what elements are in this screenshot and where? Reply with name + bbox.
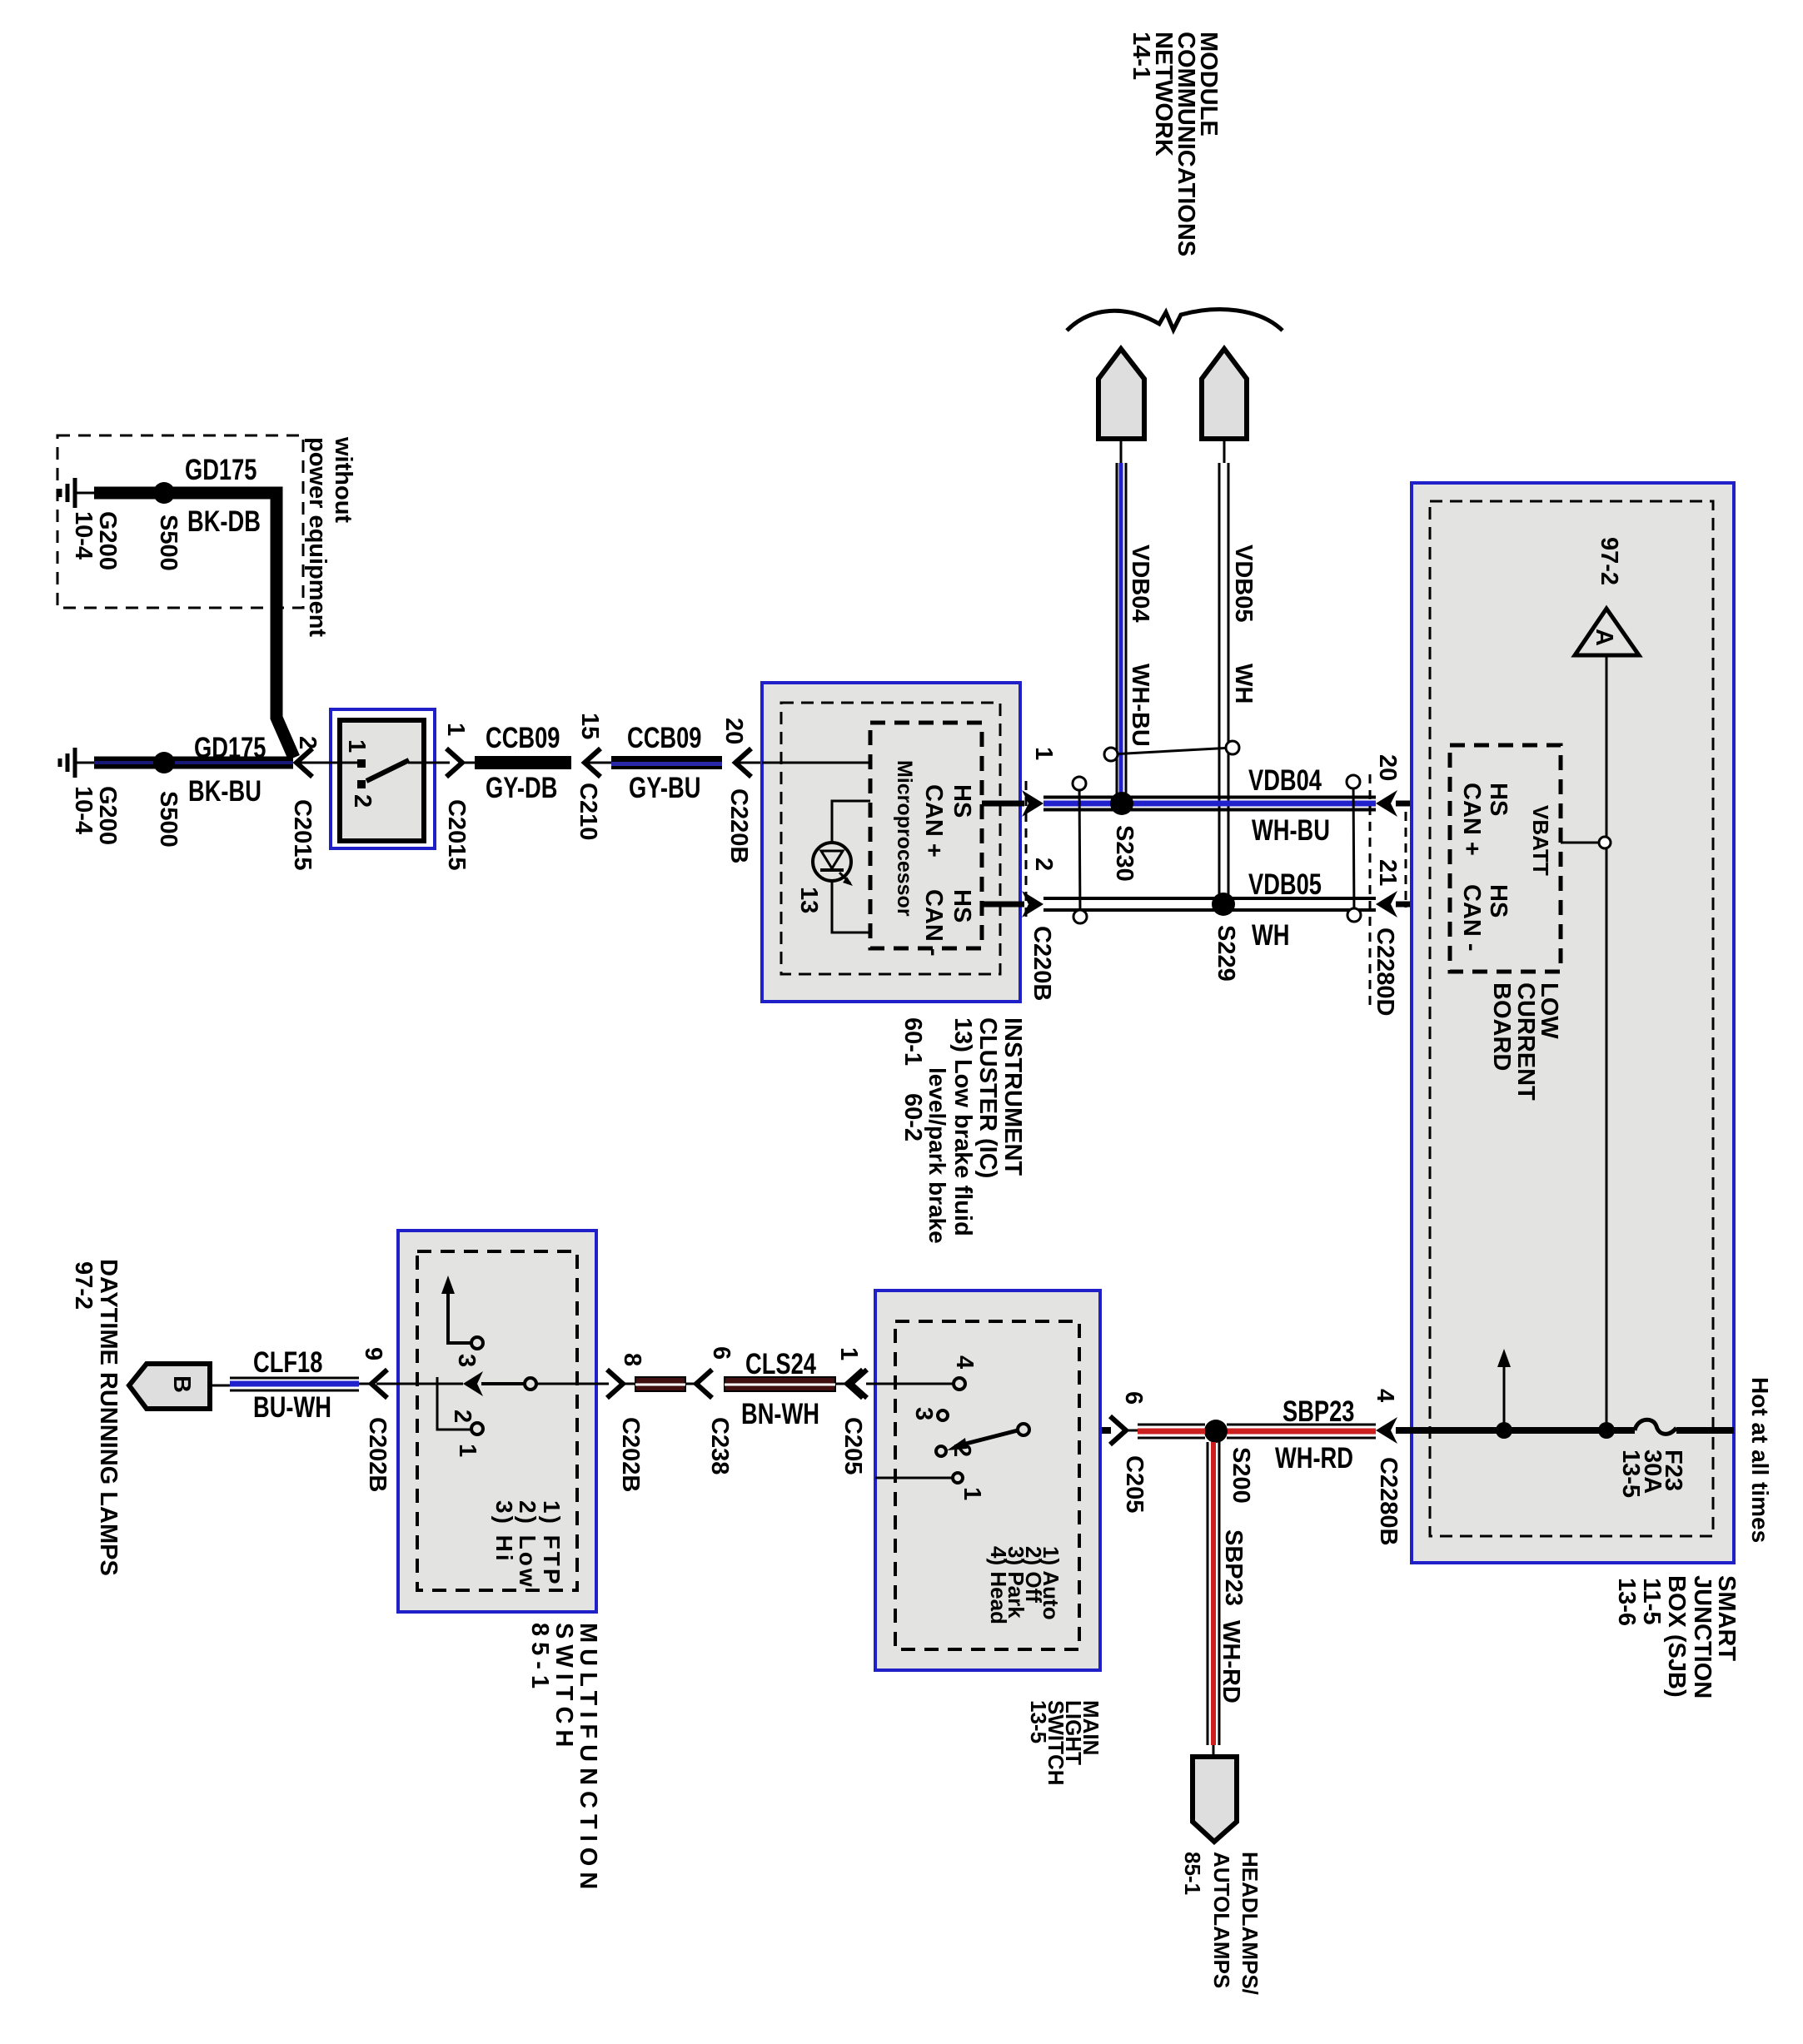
switch arm <box>956 1430 1018 1446</box>
dashed option box <box>57 435 303 608</box>
svg-text:G200: G200 <box>94 786 121 845</box>
label BN-WH <box>741 1398 819 1430</box>
label SMART JUNCTION BOX SJB <box>1713 1575 1740 1661</box>
offpage connector HEADLAMPS pentagon <box>1193 1757 1237 1842</box>
svg-text:20: 20 <box>720 718 747 744</box>
wire C220B-20 inside IC <box>762 762 870 764</box>
connector arrow C220B female <box>735 748 751 777</box>
wire into parking brake switch <box>296 762 360 764</box>
svg-text:10-4: 10-4 <box>70 786 97 834</box>
wire main light switch out <box>1027 1427 1111 1434</box>
svg-text:8: 8 <box>619 1353 645 1366</box>
bus connector pentagon VDB04 <box>1098 349 1144 439</box>
svg-text:A: A <box>1591 629 1617 646</box>
pin 8 label <box>619 1353 645 1366</box>
svg-text:CLUSTER (IC): CLUSTER (IC) <box>974 1017 1001 1178</box>
wire into SJB pin20 <box>1396 801 1451 807</box>
splice S500 top <box>153 482 175 504</box>
wire to pin 1 <box>408 762 450 764</box>
svg-text:CAN +: CAN + <box>920 784 947 858</box>
pin 2 label <box>1030 858 1057 871</box>
svg-text:VDB05: VDB05 <box>1248 868 1322 901</box>
connector dashed line C220B <box>1025 781 1028 919</box>
label SBP23 down <box>1220 1529 1247 1606</box>
twisted pair marker left <box>1079 783 1080 917</box>
contact 3 <box>938 1410 948 1420</box>
wire into SJB pin21 <box>1396 902 1451 908</box>
svg-text:GY-BU: GY-BU <box>629 772 700 804</box>
connector arrow C238 female <box>696 1370 712 1398</box>
connector arrow C220B pin2 solid <box>1022 891 1043 918</box>
wire CLF18 BU-WH <box>230 1377 359 1380</box>
ground G200 bottom <box>60 748 75 778</box>
svg-text:10-4: 10-4 <box>70 511 97 559</box>
svg-text:C2015: C2015 <box>289 799 316 870</box>
svg-text:VDB05: VDB05 <box>1230 545 1257 623</box>
pin 15 label C210 <box>576 713 603 739</box>
label GD175 bottom <box>194 732 266 764</box>
switch contact 2 <box>357 780 366 788</box>
bus brace <box>1067 310 1283 331</box>
wire ground stub bottom <box>75 762 94 764</box>
svg-text:Hot at all times: Hot at all times <box>1747 1377 1773 1543</box>
label WH-BU bus <box>1252 814 1330 847</box>
pin 20 label <box>1374 754 1401 781</box>
label GY-DB <box>486 772 557 804</box>
wire SBP23 WH-RD left <box>1138 1424 1205 1426</box>
label S229 <box>1213 925 1239 982</box>
pin 9 label <box>360 1347 386 1360</box>
connector arrow C2280D pin20 solid <box>1376 790 1397 817</box>
switch arm <box>366 760 409 781</box>
connector arrow C2015 female <box>296 748 312 777</box>
svg-text:SWITCH: SWITCH <box>550 1623 577 1753</box>
svg-text:21: 21 <box>1374 859 1401 886</box>
wire CLS24 BN-WH bar <box>725 1377 835 1391</box>
connector arrow C210 <box>585 748 600 777</box>
label Hot at all times <box>1747 1377 1773 1543</box>
svg-text:1) FTP: 1) FTP <box>539 1500 565 1587</box>
svg-text:WH: WH <box>1252 919 1289 952</box>
contact 1 <box>953 1473 963 1483</box>
svg-text:S230: S230 <box>1111 825 1138 882</box>
connector arrow C2015 male <box>446 748 462 777</box>
label VDB05 bus <box>1248 868 1322 901</box>
feed bus <box>1396 1427 1635 1434</box>
arrow other circuits <box>1503 1365 1506 1430</box>
contact 4 <box>954 1378 965 1390</box>
label C210 <box>575 783 601 840</box>
svg-text:without: without <box>330 436 356 523</box>
svg-text:CAN -: CAN - <box>920 889 947 957</box>
lamp 13 LED <box>813 843 851 881</box>
svg-text:85-1: 85-1 <box>1180 1852 1205 1895</box>
label HEADLAMPS AUTOLAMPS 85-1 <box>1238 1852 1263 1995</box>
svg-text:60-2: 60-2 <box>899 1093 926 1141</box>
svg-text:C2280B: C2280B <box>1375 1457 1402 1545</box>
svg-text:G200: G200 <box>94 511 121 570</box>
label C202B right <box>617 1417 644 1492</box>
svg-text:C205: C205 <box>839 1417 866 1475</box>
label 13 <box>795 887 822 913</box>
svg-text:BOX (SJB): BOX (SJB) <box>1663 1575 1690 1698</box>
svg-text:C202B: C202B <box>364 1417 391 1492</box>
splice S200 <box>1204 1420 1228 1443</box>
connector arrow C2280B pin4 solid <box>1376 1417 1397 1444</box>
instrument cluster box <box>762 683 1020 1002</box>
svg-text:MULTIFUNCTION: MULTIFUNCTION <box>575 1623 601 1895</box>
pin 1 label <box>1030 747 1057 760</box>
svg-text:GY-DB: GY-DB <box>486 772 557 804</box>
svg-text:6: 6 <box>1120 1391 1147 1405</box>
parking brake switch box <box>331 709 435 848</box>
svg-text:DAYTIME RUNNING LAMPS: DAYTIME RUNNING LAMPS <box>95 1259 122 1576</box>
connector arrow C202B pin9 female <box>371 1370 387 1398</box>
switch contact 1 <box>357 759 366 768</box>
label CLF18 <box>253 1346 322 1379</box>
wire ground stub top <box>75 492 94 495</box>
smart junction box <box>1412 483 1734 1563</box>
pivot contact <box>1018 1424 1029 1435</box>
svg-text:GD175: GD175 <box>194 732 266 764</box>
label HS CAN + SJB <box>1485 783 1512 816</box>
pin 20 label C220B <box>720 718 747 744</box>
wire VBATT vertical <box>1606 655 1608 1427</box>
label GY-BU <box>629 772 700 804</box>
svg-text:4: 4 <box>1372 1389 1398 1402</box>
label 97-2 <box>1596 537 1622 585</box>
label C220B left <box>725 788 752 863</box>
label VDB04 bus <box>1248 764 1322 797</box>
svg-text:S500: S500 <box>155 515 182 571</box>
label C2015 left <box>289 799 316 870</box>
wire VBATT tap <box>1561 842 1600 844</box>
svg-text:1: 1 <box>959 1487 985 1500</box>
connector arrow C202B pin8 male <box>607 1370 623 1398</box>
svg-text:97-2: 97-2 <box>1596 537 1622 585</box>
switch arm arrowhead <box>463 1371 483 1396</box>
svg-text:VBATT: VBATT <box>1528 805 1553 876</box>
connector arrow C205 pin1 female <box>851 1370 867 1398</box>
svg-text:S500: S500 <box>155 791 182 848</box>
svg-text:9: 9 <box>360 1347 386 1360</box>
main light switch box <box>875 1291 1100 1670</box>
connector arrow C2280D pin21 solid <box>1376 891 1397 918</box>
svg-text:BK-DB: BK-DB <box>187 505 261 538</box>
svg-text:S200: S200 <box>1228 1447 1254 1504</box>
label SBP23 <box>1283 1395 1354 1428</box>
svg-text:1: 1 <box>835 1347 862 1360</box>
label C220B right <box>1029 926 1055 1001</box>
svg-text:4: 4 <box>951 1355 978 1369</box>
svg-text:VDB04: VDB04 <box>1127 545 1153 623</box>
label C202B left <box>364 1417 391 1492</box>
label VDB04 WH-BU vertical <box>1127 545 1153 623</box>
svg-text:C220B: C220B <box>1029 926 1055 1001</box>
splice S230 <box>1110 792 1133 815</box>
svg-text:BOARD: BOARD <box>1488 982 1515 1071</box>
junction dot 1 <box>1496 1422 1512 1439</box>
label BK-BU <box>188 775 261 808</box>
svg-text:CCB09: CCB09 <box>627 722 701 754</box>
label C2015 right <box>443 799 470 870</box>
label MAIN LIGHT SWITCH 13-5 <box>1078 1700 1103 1755</box>
svg-text:C210: C210 <box>575 783 601 840</box>
svg-text:S229: S229 <box>1213 925 1239 982</box>
wire stub to B <box>210 1385 230 1387</box>
svg-text:SMART: SMART <box>1713 1575 1740 1661</box>
svg-text:BU-WH: BU-WH <box>253 1391 331 1424</box>
svg-text:C205: C205 <box>1121 1455 1148 1513</box>
svg-text:BK-BU: BK-BU <box>188 775 261 808</box>
label LOW CURRENT BOARD <box>1536 982 1562 1039</box>
label C2280D <box>1372 928 1398 1016</box>
wire LED feed <box>832 801 870 843</box>
wire LED return <box>832 881 870 932</box>
svg-text:HS: HS <box>1485 884 1512 918</box>
label C238 <box>706 1417 733 1475</box>
svg-text:WH-BU: WH-BU <box>1127 664 1153 747</box>
svg-text:6: 6 <box>708 1346 735 1360</box>
connector arrow C220B pin1 solid <box>1022 790 1043 817</box>
svg-text:CCB09: CCB09 <box>486 722 560 754</box>
wire C205 pin1 to contact 4 <box>866 1383 954 1385</box>
splice S500 bottom <box>153 752 175 773</box>
svg-text:2: 2 <box>294 736 321 749</box>
svg-text:CLS24: CLS24 <box>745 1348 816 1380</box>
wire HS CAN+ pin1 <box>982 801 1024 807</box>
label CCB09 2 <box>627 722 701 754</box>
svg-text:15: 15 <box>576 713 603 739</box>
wire HS CAN- pin2 <box>982 902 1024 908</box>
label GD175 top <box>185 454 257 486</box>
label C205 left <box>839 1417 866 1475</box>
offpage connector B pentagon <box>129 1364 210 1409</box>
wire out of box <box>536 1383 609 1385</box>
svg-text:4) Head: 4) Head <box>986 1546 1011 1624</box>
svg-text:2) Low: 2) Low <box>515 1500 540 1589</box>
label S500 bottom <box>155 791 182 848</box>
svg-text:3: 3 <box>453 1354 480 1367</box>
svg-text:CAN +: CAN + <box>1458 783 1485 856</box>
ground G200 top <box>60 478 75 508</box>
svg-text:HEADLAMPS/: HEADLAMPS/ <box>1238 1852 1263 1995</box>
svg-text:CLF18: CLF18 <box>253 1346 322 1379</box>
svg-text:13-6: 13-6 <box>1613 1578 1640 1626</box>
svg-text:14-1: 14-1 <box>1128 32 1154 80</box>
svg-text:C202B: C202B <box>617 1417 644 1492</box>
label S230 <box>1111 825 1138 882</box>
wire into instrument cluster <box>735 762 764 764</box>
stub VDB05 <box>1223 439 1226 463</box>
label VDB05 WH vertical <box>1230 545 1257 623</box>
splice S229 <box>1212 893 1235 916</box>
twisted pair marker right <box>1353 782 1354 915</box>
bus VDB05 <box>1043 897 1376 900</box>
svg-text:20: 20 <box>1374 754 1401 781</box>
svg-text:13-5: 13-5 <box>1617 1450 1644 1498</box>
svg-text:CAN -: CAN - <box>1458 884 1485 952</box>
svg-text:JUNCTION: JUNCTION <box>1689 1575 1716 1698</box>
label F23 30A 13-5 <box>1660 1450 1686 1491</box>
multifunction switch box <box>398 1231 596 1612</box>
svg-text:HS: HS <box>949 889 975 923</box>
label S500 top <box>155 515 182 571</box>
contact 2 tick <box>436 1377 439 1390</box>
label HS CAN - IC <box>949 889 975 923</box>
svg-text:INSTRUMENT: INSTRUMENT <box>999 1017 1026 1176</box>
VBATT box <box>1450 745 1561 972</box>
wire VDB04 WH-BU vertical <box>1116 463 1118 796</box>
node circle <box>1599 837 1611 848</box>
svg-text:13: 13 <box>795 887 822 913</box>
svg-text:AUTOLAMPS: AUTOLAMPS <box>1209 1852 1234 1988</box>
label INSTRUMENT CLUSTER block <box>999 1017 1026 1176</box>
wire stub <box>462 762 475 764</box>
label BU-WH <box>253 1391 331 1424</box>
label DAYTIME RUNNING LAMPS 97-2 <box>95 1259 122 1576</box>
svg-text:WH-RD: WH-RD <box>1218 1620 1244 1703</box>
wire SBP23 WH-RD right <box>1227 1424 1376 1426</box>
svg-text:WH: WH <box>1230 664 1257 704</box>
triangle A <box>1575 609 1639 655</box>
svg-text:1: 1 <box>1030 747 1057 760</box>
microprocessor box <box>870 723 982 948</box>
svg-text:60-1: 60-1 <box>899 1017 926 1066</box>
svg-text:VDB04: VDB04 <box>1248 764 1322 797</box>
connector arrow C205 pin6 male <box>1110 1416 1126 1445</box>
bus connector pentagon VDB05 <box>1202 349 1247 439</box>
connector dashed line C2280D <box>1369 774 1372 1012</box>
svg-text:3: 3 <box>910 1407 937 1420</box>
label WH-RD <box>1275 1442 1353 1475</box>
svg-text:SBP23: SBP23 <box>1283 1395 1354 1428</box>
label WH-RD down <box>1218 1620 1244 1703</box>
label S200 <box>1228 1447 1254 1504</box>
wire VDB05 WH vertical <box>1218 463 1221 899</box>
svg-text:HS: HS <box>1485 783 1512 816</box>
label G200 10-4 top <box>94 511 121 570</box>
twisted pair marker horizontal <box>1111 748 1233 754</box>
pin 6 label <box>1120 1391 1147 1405</box>
junction dot 2 <box>1598 1422 1615 1439</box>
bus VDB04 <box>1043 796 1376 799</box>
wire S200 down SBP23 WH-RD <box>1207 1442 1209 1745</box>
svg-text:2: 2 <box>449 1410 476 1423</box>
legend FTP Low Hi <box>539 1500 565 1587</box>
wire GD175 BK-DB <box>94 493 294 758</box>
svg-text:level/park brake: level/park brake <box>924 1067 950 1244</box>
wire CCB09 GY-DB bar <box>475 756 571 769</box>
svg-text:Microprocessor: Microprocessor <box>893 760 916 917</box>
contact 2 <box>936 1446 946 1456</box>
svg-text:C2015: C2015 <box>443 799 470 870</box>
svg-text:B: B <box>168 1375 195 1393</box>
branch to contact 1 <box>437 1384 471 1430</box>
svg-text:GD175: GD175 <box>185 454 257 486</box>
svg-text:BN-WH: BN-WH <box>741 1398 819 1430</box>
wire stub <box>835 1383 847 1385</box>
label MODULE COMMUNICATIONS NETWORK 14-1 <box>1195 32 1222 137</box>
pin 4 label <box>1372 1389 1398 1402</box>
label C2280B <box>1375 1457 1402 1545</box>
pin 2 label C2015 <box>294 736 321 749</box>
svg-text:2: 2 <box>349 794 376 808</box>
svg-text:WH-RD: WH-RD <box>1275 1442 1353 1475</box>
svg-text:1: 1 <box>343 739 370 753</box>
wire stub <box>685 1383 698 1385</box>
svg-text:CURRENT: CURRENT <box>1512 982 1539 1101</box>
label C205 right <box>1121 1455 1148 1513</box>
svg-text:1: 1 <box>454 1444 481 1457</box>
svg-text:C2280D: C2280D <box>1372 928 1398 1016</box>
wire contact 1 stub <box>875 1477 952 1480</box>
svg-text:85-1: 85-1 <box>526 1623 553 1694</box>
fuse F23 30A <box>1635 1420 1676 1434</box>
label B <box>168 1375 195 1393</box>
svg-text:WH-BU: WH-BU <box>1252 814 1330 847</box>
wire into box <box>376 1383 463 1385</box>
svg-text:C238: C238 <box>706 1417 733 1475</box>
label WH bus <box>1252 919 1289 952</box>
wire stub <box>585 762 611 764</box>
svg-text:SBP23: SBP23 <box>1220 1529 1247 1606</box>
svg-text:13) Low brake fluid: 13) Low brake fluid <box>949 1017 976 1236</box>
svg-text:3) Hi: 3) Hi <box>491 1500 517 1564</box>
svg-text:97-2: 97-2 <box>70 1261 97 1310</box>
label without power equipment <box>330 436 356 523</box>
connector arrow C205 pin1 female mid <box>847 1370 863 1398</box>
svg-text:power equipment: power equipment <box>304 437 331 637</box>
label HS CAN + IC <box>949 784 975 818</box>
svg-text:HS: HS <box>949 784 975 818</box>
pivot circle <box>525 1378 536 1390</box>
label BK-DB <box>187 505 261 538</box>
svg-text:2: 2 <box>1030 858 1057 871</box>
wire CCB09 GY-BU bar <box>611 756 722 769</box>
pin 6 label C238 <box>708 1346 735 1360</box>
svg-text:C220B: C220B <box>725 788 752 863</box>
label G200 10-4 bottom <box>94 786 121 845</box>
contact 3 arm up <box>471 1337 483 1349</box>
svg-text:13-5: 13-5 <box>1026 1700 1051 1743</box>
svg-text:11-5: 11-5 <box>1638 1578 1665 1624</box>
svg-text:1: 1 <box>442 723 469 736</box>
wire C202B to C238 bar <box>635 1377 685 1391</box>
pin 1 label <box>835 1347 862 1360</box>
stub VDB04 <box>1120 439 1123 463</box>
legend Auto Off Park Head <box>1038 1546 1063 1620</box>
wire GD175 BK-BU <box>94 757 293 769</box>
label HS CAN - SJB <box>1485 884 1512 918</box>
label CLS24 <box>745 1348 816 1380</box>
pin 21 label <box>1374 859 1401 886</box>
label MULTIFUNCTION SWITCH 85-1 <box>575 1623 601 1895</box>
pin 1 label C2015 <box>442 723 469 736</box>
label CCB09 <box>486 722 560 754</box>
